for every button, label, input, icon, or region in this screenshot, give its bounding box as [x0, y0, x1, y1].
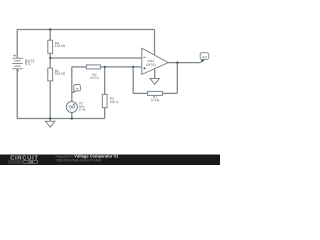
wire R3 top lead — [104, 67, 106, 95]
wire feedback right vertical — [176, 63, 178, 94]
footer bar — [0, 155, 220, 166]
node flag in — [72, 91, 75, 93]
resistor R2 — [86, 65, 100, 69]
op-amp label — [148, 60, 154, 62]
battery minus sign — [16, 70, 19, 72]
wire R2 to non-inverting input — [100, 66, 141, 68]
wire bottom rail — [17, 118, 105, 120]
circuitlab logo stripes — [8, 161, 23, 163]
op-amp OA1 — [142, 48, 169, 74]
junction node dots — [49, 28, 179, 119]
wire R3 bottom lead — [104, 108, 106, 119]
resistor R7 — [148, 91, 163, 95]
battery label BAT2 — [25, 60, 34, 63]
circuitlab logo wordmark — [10, 155, 38, 159]
wire left column bottom — [16, 69, 18, 119]
wire op-amp output — [168, 62, 200, 64]
R4 label — [55, 42, 59, 44]
node flag out — [200, 59, 205, 63]
wire V2 bottom lead — [71, 112, 73, 118]
resistor R4 — [48, 40, 53, 53]
footer credit line 1 — [56, 155, 73, 158]
wire V2 corner to R2 — [72, 66, 87, 68]
wire R5 bottom lead — [49, 81, 51, 119]
V2 label — [79, 102, 83, 104]
battery BAT2 plates — [12, 58, 22, 68]
resistor R5 — [48, 68, 53, 81]
wire feedback bottom left — [133, 92, 147, 94]
voltage source V2 sine — [66, 102, 77, 113]
R7 label — [153, 96, 157, 98]
ground at divider bottom — [49, 119, 51, 122]
wire op-amp supply riser — [154, 30, 156, 56]
wire feedback bottom right — [163, 92, 178, 94]
wire reference to inverting input — [50, 57, 142, 59]
wire V2 riser — [71, 67, 73, 102]
op-amp minus mark — [143, 56, 145, 58]
wire between R4 and R5 — [49, 53, 51, 68]
wire feedback left vertical — [132, 67, 134, 94]
R2 label — [93, 74, 97, 76]
battery plus sign — [13, 54, 16, 57]
op-amp plus mark — [143, 67, 145, 69]
wire op-amp V- stub — [154, 69, 156, 79]
wire R4 top lead — [49, 30, 51, 41]
R3 label — [110, 97, 114, 99]
wire top rail — [17, 29, 154, 31]
R5 label — [55, 70, 59, 72]
circuitlab logo LAB box — [24, 160, 38, 163]
ground under op-amp — [150, 79, 159, 85]
footer credit line 2 — [56, 159, 101, 162]
wire left column top — [16, 30, 18, 59]
resistor R3 — [102, 94, 107, 107]
